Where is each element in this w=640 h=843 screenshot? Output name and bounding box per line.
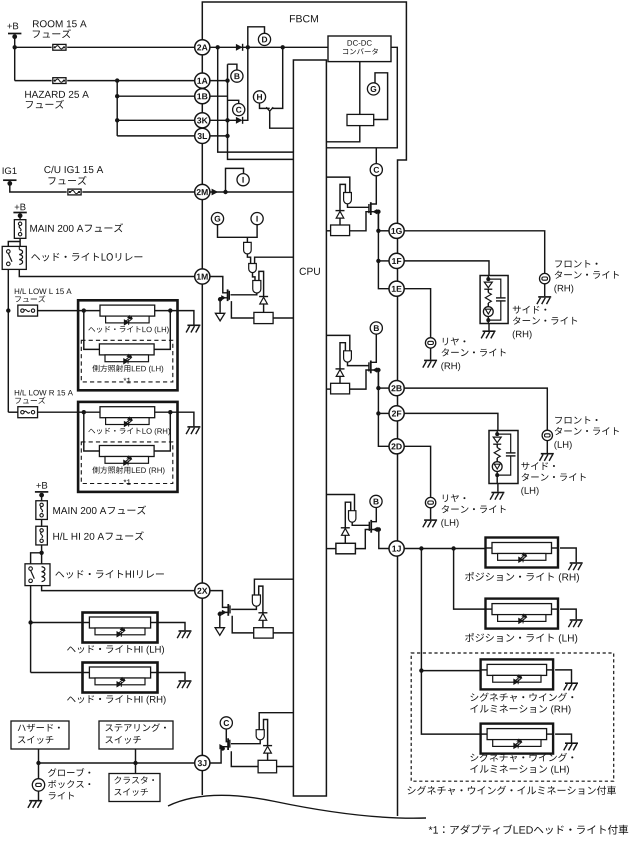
- ground signature wing LH: [555, 734, 571, 742]
- position light LH box: [486, 599, 559, 629]
- label side turn light LH: [521, 462, 555, 470]
- position light RH box: [486, 538, 559, 568]
- resistor (3J block): [258, 760, 277, 773]
- side turn light RH unit: [480, 276, 508, 324]
- lamp head light LO (LH): [100, 305, 155, 316]
- FBCM label: [290, 15, 318, 22]
- wires switches to connector 3J: [38, 749, 40, 763]
- ground position light RH: [560, 548, 576, 562]
- wire 1B to bus: [210, 95, 228, 97]
- ground side turn RH: [488, 324, 490, 331]
- label front turn light LH: [555, 416, 597, 424]
- label position light RH: [465, 572, 554, 581]
- wire DC-DC bottom through resistor: [359, 62, 361, 115]
- wire to connector 1B: [117, 95, 195, 97]
- gate wire (2X): [231, 606, 256, 609]
- net label D: [258, 33, 270, 45]
- fuse MAIN 200 A (HI side): [36, 501, 48, 520]
- wire resistor to MOSFET source: [231, 301, 254, 318]
- steering switch box: [99, 721, 173, 749]
- label ROOM 15 A fuse: [33, 20, 87, 27]
- wire 1J branch into signature wing: [420, 549, 422, 671]
- label steering switch: [105, 723, 166, 731]
- driver stage 2: [249, 264, 257, 273]
- driver (3J block): [256, 730, 264, 740]
- lamp rear turn light RH: [425, 338, 435, 348]
- wires G/I to first driver: [218, 225, 258, 238]
- wire diode to resistor (3J): [267, 753, 269, 760]
- wire 2A to DC-DC converter: [210, 46, 328, 48]
- MOSFET source to 1J row: [371, 530, 389, 549]
- wire CPU to gate driver: [326, 177, 349, 192]
- connector 1F: [389, 253, 404, 268]
- gate resistor: [331, 383, 350, 394]
- connector 1M: [195, 269, 210, 284]
- lamp head light HI (LH): [89, 617, 150, 628]
- DC-DC converter box: [328, 36, 391, 62]
- connector 1G: [389, 223, 404, 238]
- ground front turn RH: [544, 284, 546, 296]
- label rear turn light LH: [443, 494, 466, 502]
- head light HI (LH) unit box: [83, 613, 158, 643]
- connector 2D: [389, 439, 404, 454]
- ground rear turn RH: [430, 348, 432, 359]
- fuse H/L HI 20 A: [36, 526, 48, 545]
- ground arrow (2X block): [215, 628, 224, 636]
- label head light LO (RH): [88, 428, 140, 435]
- wire CPU to gate driver (1J): [326, 495, 354, 511]
- net C loop: [228, 100, 239, 103]
- connector 2X: [195, 583, 210, 598]
- wire to position light LH: [454, 549, 486, 610]
- signature wing illumination RH box: [481, 659, 553, 689]
- wire diode to 2A node: [243, 47, 248, 120]
- ground glove box light: [38, 791, 40, 800]
- wire diode to resistor (2X): [262, 620, 264, 627]
- branch to HI relay switch: [31, 553, 42, 564]
- wire resistor to CPU: [326, 126, 359, 142]
- footnote *1 adaptive LED head light: [429, 826, 438, 833]
- net label B: [370, 322, 382, 334]
- label H/L HI 20 A fuse: [53, 533, 104, 540]
- net I loop: [226, 168, 244, 192]
- fuse C/U IG1 15 A: [68, 189, 81, 195]
- diode loop (2X): [259, 586, 263, 613]
- wire 2D to rear turn LH: [404, 446, 431, 497]
- wire 2B to front turn LH: [404, 388, 547, 430]
- driver stage 3: [253, 281, 261, 293]
- gate wire (3J): [231, 740, 260, 744]
- ground rear turn LH: [430, 508, 432, 519]
- diode (2X block): [258, 612, 267, 614]
- wire net C up to supply rail: [375, 148, 377, 164]
- wire resistor to CPU (3J): [277, 766, 294, 768]
- wire CPU to 2X driver: [254, 579, 293, 595]
- wire 1A to bus: [210, 80, 228, 82]
- lamp head light HI (RH): [89, 667, 150, 678]
- wire 1E to rear turn RH: [404, 289, 431, 338]
- head light HI (RH) unit box: [83, 663, 158, 693]
- wire relay switch to LOW fuse rows: [7, 269, 9, 412]
- net label B (1J block): [370, 495, 382, 507]
- MOSFET source: [371, 370, 379, 388]
- wire to connector 1A: [117, 80, 195, 82]
- net label H: [253, 91, 265, 103]
- connector 3J: [195, 755, 210, 770]
- diode (3J block): [263, 745, 272, 747]
- fuse MAIN 200 A (LO side): [14, 220, 26, 239]
- wire CPU to 3J driver: [259, 713, 293, 730]
- wires fuse to LO relay: [19, 238, 21, 246]
- lamp side illumination LED (LH): [99, 344, 154, 355]
- hazard switch box: [11, 721, 69, 749]
- MOSFET (1M block): [228, 291, 230, 300]
- label C/U IG1 15 A fuse: [44, 166, 103, 173]
- wire 1F to side turn RH: [404, 261, 489, 276]
- MOSFET (2X block): [229, 605, 231, 613]
- source bus to output rows: [377, 212, 379, 231]
- label *1: [124, 378, 131, 384]
- diode loop (3J): [264, 720, 268, 746]
- driver stage 1: [244, 242, 252, 253]
- connector 2M: [195, 184, 210, 199]
- gate driver amplifier (1J): [349, 511, 356, 523]
- MOSFET drain to B: [371, 334, 377, 362]
- bus 1A/1B/3K/3L to CPU: [228, 64, 294, 159]
- wire to signature wing LH: [421, 671, 480, 735]
- signature wing illumination LH box: [481, 724, 553, 754]
- wire resistor to MOSFET source (2X): [232, 616, 254, 633]
- gate resistor: [331, 225, 350, 236]
- wires to side LED lamp: [84, 311, 100, 350]
- label cluster switch: [114, 776, 154, 784]
- label H/L LOW R 15 A fuse: [15, 390, 73, 396]
- net label C (3J block): [220, 717, 232, 729]
- label head light HI (RH): [67, 695, 132, 703]
- merge arrowhead: [266, 107, 273, 111]
- MOSFET source to ground (2X): [220, 612, 229, 627]
- connector 3L: [195, 128, 210, 143]
- protection diode loop (1J): [345, 502, 350, 528]
- net label G right: [367, 83, 379, 95]
- label HAZARD 25 A fuse: [25, 91, 89, 98]
- connector 3K: [195, 113, 210, 128]
- label MAIN 200 A fuse: [30, 225, 83, 232]
- CPU label: [300, 268, 320, 275]
- cluster switch box: [109, 774, 160, 802]
- wire to glove box light: [38, 763, 40, 779]
- protection diode loop (1M): [259, 271, 264, 296]
- MOSFET source to ground: [220, 298, 228, 313]
- label signature wing LH: [470, 753, 573, 762]
- wire diode to resistor (1J): [344, 535, 346, 543]
- wire stage1 to stage2: [247, 254, 250, 264]
- +B supply terminal (ROOM fuse feed): [7, 23, 18, 30]
- protection diode: [340, 343, 345, 369]
- wire to connector 3L: [117, 135, 195, 137]
- gate driver amplifier: [344, 193, 352, 204]
- label head light HI (LH): [67, 645, 132, 653]
- MOSFET: [368, 204, 370, 213]
- net D loop: [248, 27, 265, 48]
- wire and ground head light LO RH: [170, 412, 194, 426]
- net label G (1M block): [211, 213, 223, 225]
- label side illumination LED (RH): [92, 466, 130, 473]
- net G loop right: [374, 73, 388, 120]
- diode on 2A feed: [236, 44, 243, 51]
- wire DC-DC right to CPU rail: [326, 47, 397, 148]
- resistor below DC-DC: [347, 114, 374, 125]
- ground front turn LH: [546, 441, 548, 453]
- MOSFET (3J block): [229, 740, 231, 748]
- wire resistor to source (1J): [355, 530, 370, 549]
- connector 1A: [195, 73, 210, 88]
- gate resistor (1J): [336, 543, 356, 554]
- wire CPU to resistor (1J): [326, 548, 336, 550]
- feed rail with junction dots: [78, 310, 170, 312]
- connector 1E: [389, 281, 404, 296]
- wire 2M to CPU with arrow: [210, 191, 294, 193]
- wire CPU to gate driver: [326, 335, 349, 350]
- source bus to output rows: [377, 370, 379, 388]
- MOSFET (1J): [368, 522, 370, 531]
- MOSFET source: [371, 212, 379, 231]
- wire IG1 to connector 2M: [10, 182, 67, 192]
- gate driver amplifier: [344, 351, 352, 362]
- hazard junction column: [116, 81, 118, 136]
- ground signature wing RH: [555, 670, 571, 683]
- fuse H/L LOW L 15 A: [18, 305, 38, 316]
- MOSFET drain to C: [371, 176, 377, 204]
- wire +B to 2A row junction: [14, 35, 16, 47]
- relay head light HI: [25, 564, 50, 586]
- MOSFET drain to B (1J): [371, 508, 376, 522]
- driver (2X block): [252, 595, 260, 606]
- wire merge down to CPU: [270, 111, 294, 129]
- connector 1B: [195, 89, 210, 104]
- relay head light LO: [2, 246, 26, 269]
- dashed box signature wing option: [411, 653, 614, 781]
- wire diode to resistor: [263, 304, 265, 312]
- net B loop: [228, 64, 237, 70]
- dashed box adaptive LED option: [81, 442, 173, 484]
- wire to connector 3K: [117, 119, 195, 121]
- FBCM module boundary: [202, 2, 406, 816]
- net label C: [233, 104, 245, 116]
- connector 2B: [389, 381, 404, 396]
- connector 1J: [389, 541, 404, 556]
- break wave at FBCM bottom: [168, 795, 426, 818]
- lamp rear turn light LH: [425, 497, 435, 507]
- protection diode: [340, 184, 345, 210]
- fuse HAZARD 25 A: [15, 80, 52, 82]
- lamp front turn light LH: [542, 430, 552, 440]
- lamp side illumination LED (RH): [99, 446, 154, 457]
- wire CPU to resistor: [326, 230, 330, 232]
- wire 2F to side turn LH: [404, 413, 498, 430]
- resistor (2X block): [254, 628, 274, 638]
- MOSFET: [368, 362, 370, 371]
- wire resistor to source: [350, 370, 371, 389]
- label DC-DC: [348, 40, 372, 46]
- wire 1M to MOSFET drain: [210, 277, 228, 293]
- diode (1M block): [259, 296, 268, 298]
- side turn light LH unit: [489, 431, 518, 484]
- wire resistor to source: [350, 212, 371, 231]
- protection diode (1J): [341, 527, 350, 529]
- ground side turn LH: [497, 484, 499, 492]
- head light LO (RH) unit box: [78, 402, 177, 492]
- wire resistor to MOSFET (3J): [231, 751, 258, 766]
- wire relay coil to connector 2X: [42, 586, 195, 591]
- lamp head light LO (RH): [100, 407, 155, 418]
- ground arrow (1M block): [215, 313, 224, 321]
- net label C: [370, 164, 382, 176]
- fuse H/L LOW R 15 A: [8, 411, 17, 413]
- wire stage2 to stage3: [253, 273, 256, 281]
- label H/L LOW L 15 A fuse: [15, 288, 72, 294]
- wire C to MOSFET drain (3J): [226, 729, 228, 742]
- wire relay coil to connector 1M: [19, 269, 194, 276]
- wire and ground head light HI LH: [158, 623, 186, 631]
- net label I: [237, 174, 249, 186]
- label *1: [124, 479, 131, 485]
- glove box light lamp: [32, 779, 44, 791]
- dashed box adaptive LED option: [81, 340, 173, 382]
- fuse ROOM 15 A: [15, 46, 52, 48]
- lamp front turn light RH: [540, 273, 550, 283]
- label front turn light RH: [555, 260, 597, 268]
- IG1 terminal: [3, 167, 17, 174]
- wire cluster switch to 3J node: [135, 763, 137, 774]
- net label B: [231, 70, 243, 82]
- feed rail with junction dots: [78, 411, 170, 413]
- wire 3K with diode: [210, 119, 237, 121]
- wires to side LED lamp: [84, 412, 100, 451]
- wire 3L to bus: [210, 135, 228, 137]
- label head light LO (LH): [88, 326, 140, 333]
- label MAIN 200 A fuse HI: [53, 507, 106, 514]
- wire relay switch to HI lamps: [30, 586, 32, 673]
- label head light LO relay: [31, 253, 142, 262]
- label glove box light: [48, 768, 90, 777]
- wire 1J to position lights: [404, 548, 486, 550]
- bus 2A down to CPU: [218, 47, 294, 152]
- wire resistor to CPU (2X): [273, 632, 293, 634]
- wire CPU to resistor: [326, 388, 330, 390]
- label head light HI relay: [55, 570, 164, 579]
- label signature wing option note: [408, 786, 616, 795]
- wire 1G to front turn RH: [404, 231, 545, 273]
- +B supply terminal (MAIN 200 A LO): [15, 204, 26, 211]
- label side illumination LED (LH): [92, 365, 130, 372]
- label position light LH: [465, 633, 554, 642]
- label rear turn light RH: [443, 337, 466, 345]
- connector 2F: [389, 406, 404, 421]
- MOSFET source to 3J: [210, 747, 228, 763]
- resistor (1M block): [254, 312, 273, 323]
- wire +B down to HAZARD row: [14, 47, 16, 80]
- wire and ground head light LO LH: [170, 311, 194, 325]
- gate wire: [231, 293, 257, 295]
- connector 2A: [195, 40, 210, 55]
- label signature wing RH: [470, 693, 573, 702]
- ground position light LH: [560, 609, 576, 619]
- net label I (1M block): [251, 213, 263, 225]
- CPU block: [293, 60, 326, 796]
- wire 2A node down to merge: [272, 47, 283, 108]
- wire 2X to MOSFET drain: [210, 591, 228, 608]
- label hazard switch: [18, 724, 60, 732]
- label side turn light RH: [513, 306, 547, 314]
- wire H to merge arrow: [260, 103, 270, 108]
- wire CPU to stage2: [255, 257, 294, 263]
- head light LO (LH) unit box: [78, 300, 177, 390]
- wire resistor to CPU: [273, 317, 293, 319]
- wire and ground head light HI RH: [158, 673, 186, 681]
- +B supply terminal (HI): [36, 482, 47, 489]
